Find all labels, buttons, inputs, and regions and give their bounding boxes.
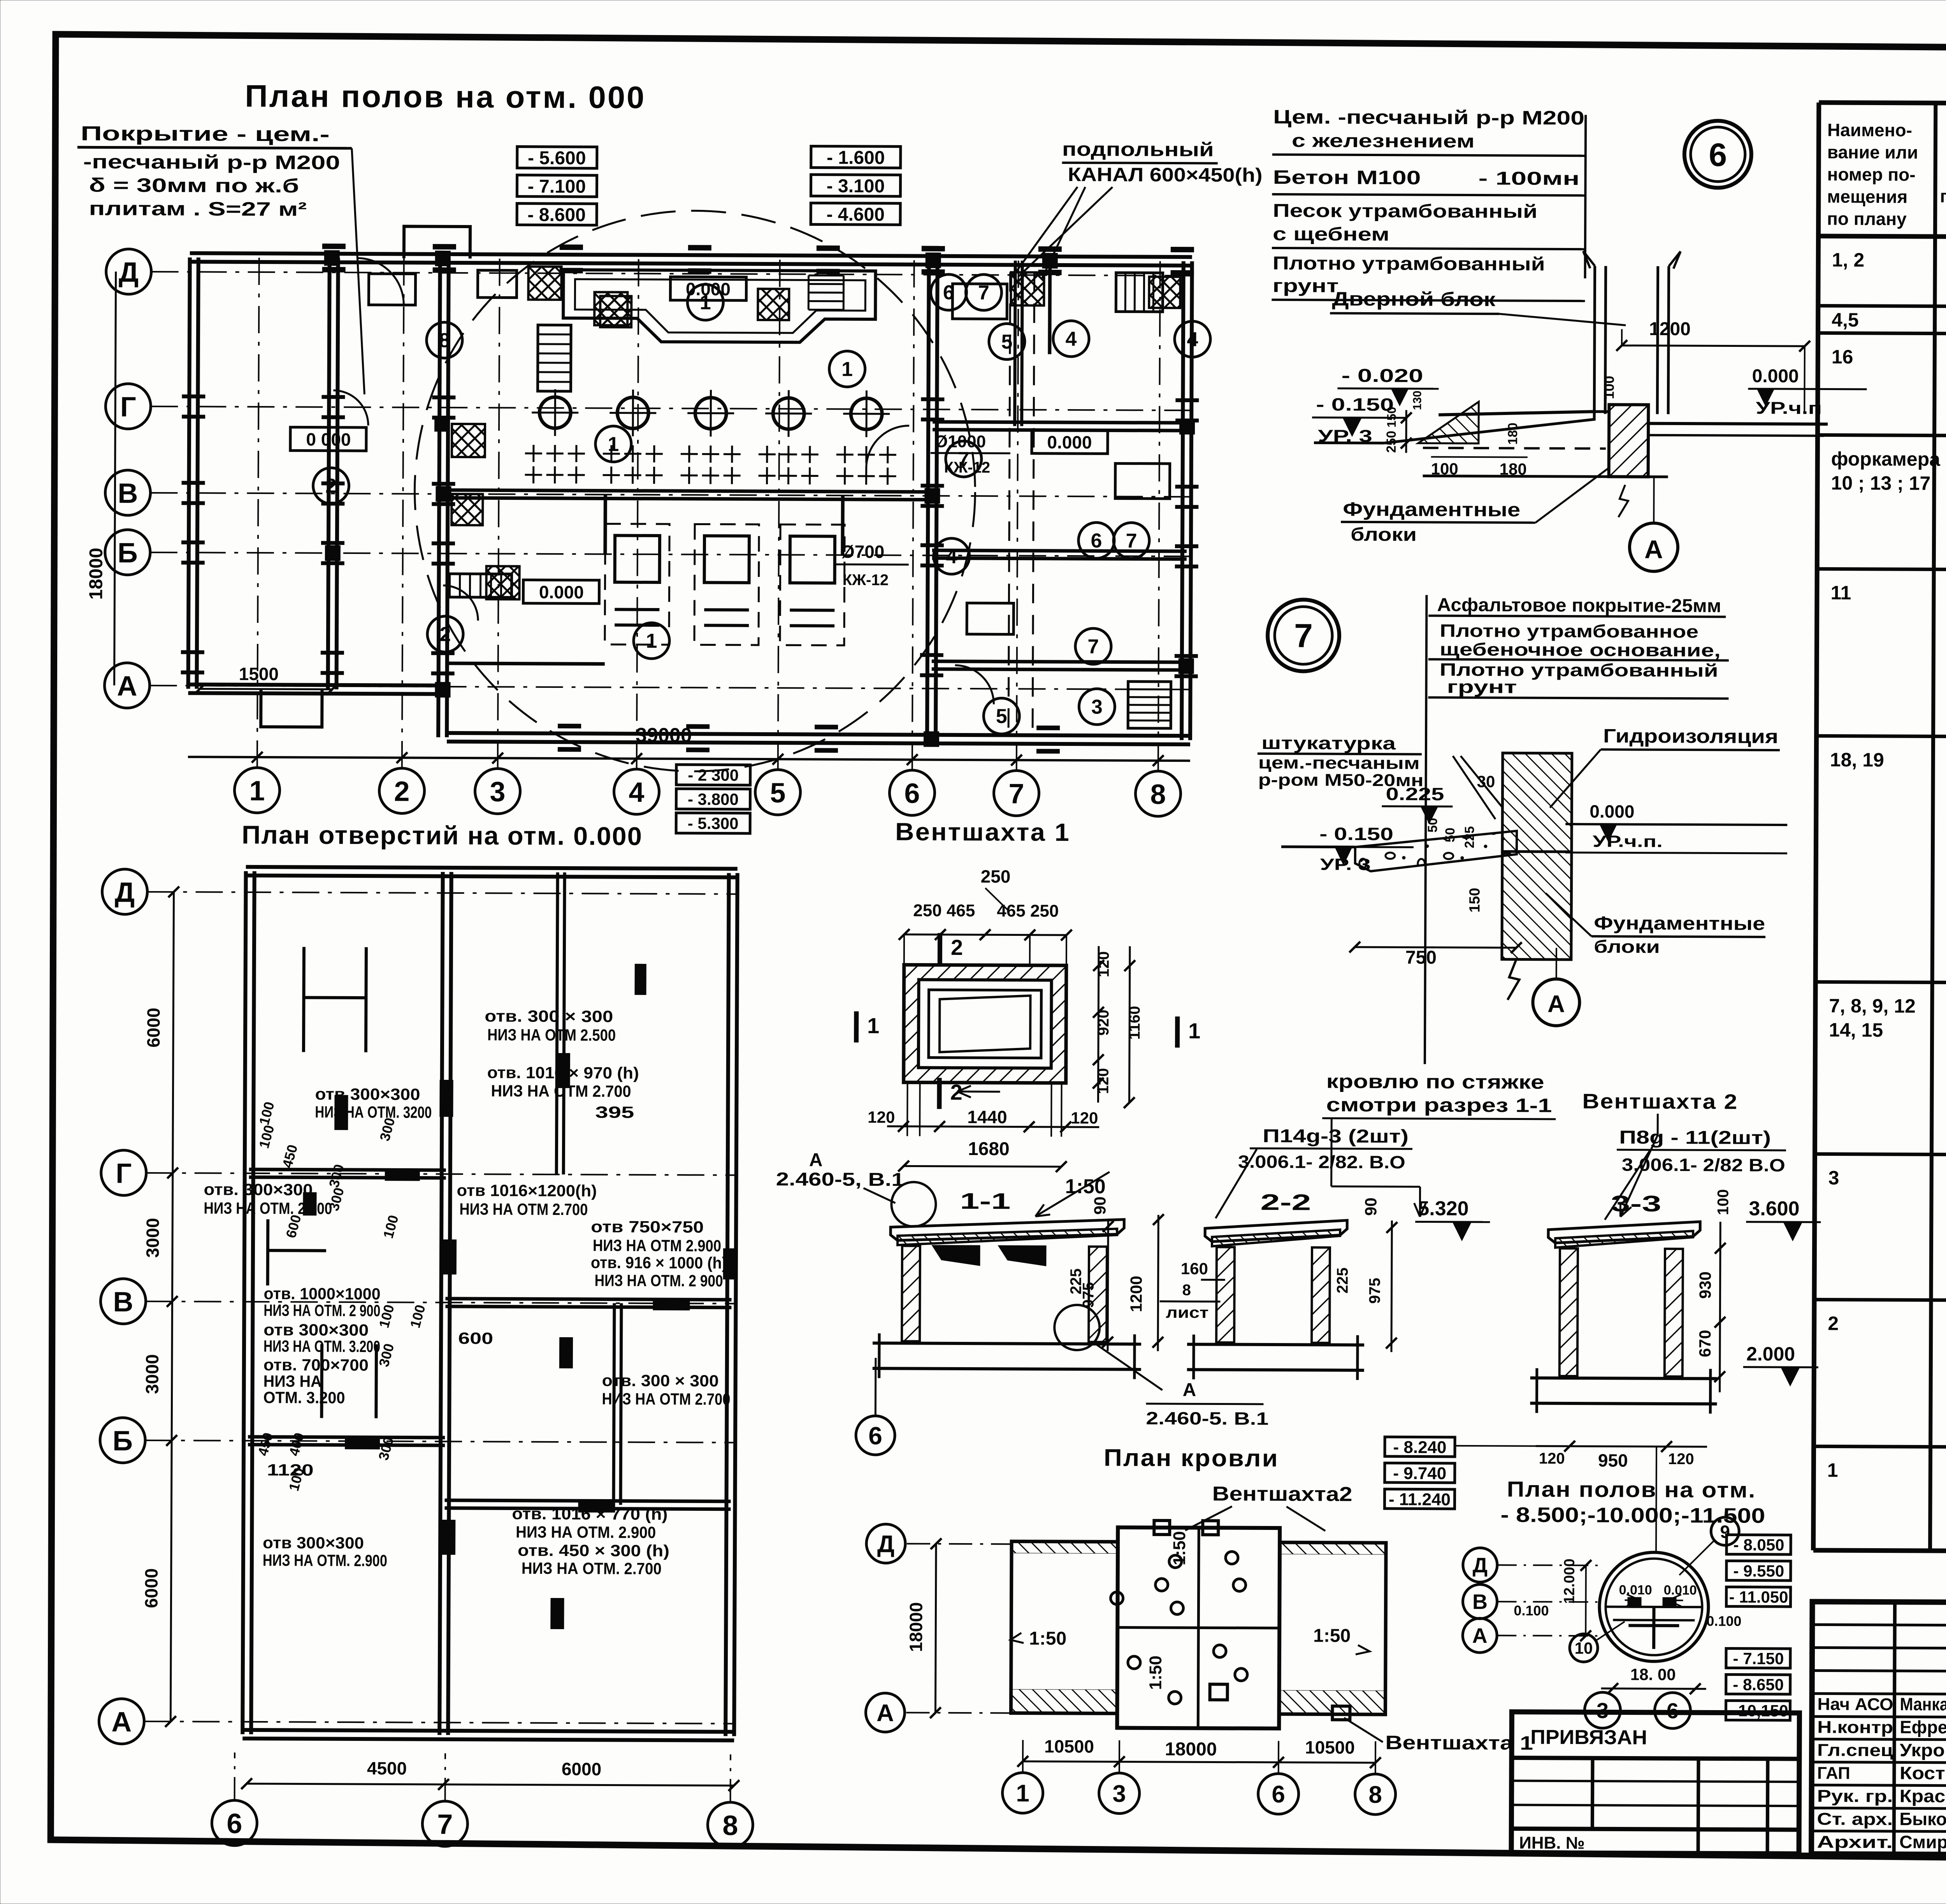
svg-text:11: 11 [1830,582,1851,604]
svg-text:250 465: 250 465 [913,901,975,920]
svg-text:18000: 18000 [86,548,107,600]
svg-text:250: 250 [981,866,1011,886]
svg-text:7: 7 [1126,530,1137,552]
svg-text:грунт: грунт [1272,276,1338,297]
svg-text:1440: 1440 [967,1107,1007,1127]
svg-text:2.460-5, В.1: 2.460-5, В.1 [776,1169,905,1190]
svg-text:δ = 30мм по ж.б: δ = 30мм по ж.б [89,174,299,197]
svg-text:НИЗ НА ОТМ. 2 900: НИЗ НА ОТМ. 2 900 [595,1271,723,1290]
svg-text:- 100мн: - 100мн [1478,168,1579,189]
svg-text:НИЗ НА ОТМ 2.700: НИЗ НА ОТМ 2.700 [491,1081,631,1100]
svg-text:- 8.050: - 8.050 [1733,1536,1784,1554]
svg-text:отв. 300×300: отв. 300×300 [204,1180,313,1199]
svg-text:- 3.800: - 3.800 [688,790,739,809]
svg-text:А: А [1183,1380,1196,1400]
svg-text:1:50: 1:50 [1029,1628,1066,1649]
svg-text:2-2: 2-2 [1260,1190,1311,1215]
svg-text:Ст. арх.: Ст. арх. [1817,1809,1893,1829]
svg-text:цем.-песчаным: цем.-песчаным [1258,753,1420,773]
svg-text:НИЗ НА ОТМ 2.700: НИЗ НА ОТМ 2.700 [602,1389,730,1408]
svg-text:950: 950 [1598,1450,1628,1470]
svg-text:9: 9 [1720,1521,1730,1542]
svg-text:3.600: 3.600 [1749,1197,1799,1220]
svg-text:плитам . S=27 м²: плитам . S=27 м² [89,197,307,220]
svg-text:1: 1 [608,433,619,455]
svg-text:3: 3 [1112,1780,1126,1807]
svg-text:1: 1 [1016,1780,1029,1807]
svg-text:КАНАЛ 600×450(h): КАНАЛ 600×450(h) [1068,164,1263,186]
svg-text:5.320: 5.320 [1418,1197,1468,1220]
svg-text:План полов на отм. 000: План полов на отм. 000 [245,79,646,115]
svg-text:А: А [876,1700,894,1726]
svg-text:1: 1 [1188,1018,1200,1043]
svg-text:КЖ-12: КЖ-12 [843,571,889,589]
svg-text:Плотно утрамбованный: Плотно утрамбованный [1273,253,1545,275]
svg-text:- 0.150: - 0.150 [1316,394,1394,415]
svg-text:0 000: 0 000 [306,429,351,449]
svg-text:1:50: 1:50 [1170,1531,1189,1565]
svg-text:4: 4 [1065,328,1077,350]
svg-text:- 0.020: - 0.020 [1342,366,1423,387]
svg-text:Д: Д [119,257,139,288]
svg-text:5: 5 [770,777,785,809]
svg-text:18. 00: 18. 00 [1630,1665,1676,1684]
svg-text:А: А [111,1707,132,1738]
svg-text:7: 7 [1294,617,1313,654]
svg-text:10 ; 13 ; 17: 10 ; 13 ; 17 [1831,472,1930,494]
svg-text:ОТМ. 3.200: ОТМ. 3.200 [263,1388,345,1407]
svg-text:225: 225 [1334,1268,1351,1294]
svg-text:1200: 1200 [1649,319,1691,339]
svg-text:В: В [1472,1590,1488,1614]
svg-text:отв. 300 × 300: отв. 300 × 300 [485,1007,613,1025]
svg-text:План кровли: План кровли [1104,1444,1279,1472]
svg-text:А: А [1472,1624,1488,1647]
svg-text:1: 1 [867,1013,879,1038]
svg-text:отв. 1016 × 970 (h): отв. 1016 × 970 (h) [487,1063,639,1082]
svg-text:лист: лист [1166,1304,1208,1321]
svg-text:1, 2: 1, 2 [1832,249,1865,271]
svg-text:5: 5 [996,705,1007,728]
svg-text:750: 750 [1405,947,1437,968]
svg-text:Смирнова: Смирнова [1899,1832,1946,1852]
svg-text:Наимено-: Наимено- [1827,120,1912,140]
svg-text:НИЗ НА ОТМ. 2 900: НИЗ НА ОТМ. 2 900 [263,1301,380,1320]
svg-text:ИНВ. №: ИНВ. № [1519,1833,1585,1853]
svg-text:- 1.600: - 1.600 [827,148,885,169]
svg-text:В: В [113,1287,133,1318]
svg-text:- 4.600: - 4.600 [826,204,885,225]
svg-text:0.225: 0.225 [1386,784,1444,804]
svg-text:130: 130 [1411,390,1424,410]
svg-text:0.000: 0.000 [1752,366,1799,387]
svg-text:12.000: 12.000 [1561,1559,1578,1604]
svg-text:Вентшахта2: Вентшахта2 [1212,1482,1352,1505]
svg-text:Д: Д [115,877,135,908]
svg-text:отв 300×300: отв 300×300 [263,1320,369,1339]
svg-text:План отверстий на отм. 0.000: План отверстий на отм. 0.000 [242,820,643,851]
svg-text:8: 8 [1150,779,1166,810]
svg-text:отв. 916 × 1000 (h): отв. 916 × 1000 (h) [591,1253,727,1272]
svg-text:отв. 450 × 300 (h): отв. 450 × 300 (h) [518,1541,669,1560]
svg-text:3000: 3000 [142,1218,163,1258]
svg-text:Ø1000: Ø1000 [934,432,986,452]
svg-text:Б: Б [112,1426,133,1457]
svg-text:НИЗ НА: НИЗ НА [263,1372,322,1391]
svg-text:номер по-: номер по- [1827,164,1916,185]
svg-text:4: 4 [629,777,644,808]
svg-text:подпольный: подпольный [1062,138,1214,160]
svg-text:120: 120 [1539,1450,1565,1467]
svg-text:отв. 700×700: отв. 700×700 [263,1355,369,1374]
svg-text:2.000: 2.000 [1746,1343,1795,1365]
svg-text:30: 30 [1477,772,1495,791]
svg-text:2.460-5. В.1: 2.460-5. В.1 [1146,1408,1268,1429]
svg-text:90: 90 [1361,1197,1380,1216]
svg-text:Фундаментные: Фундаментные [1594,913,1765,934]
svg-text:0.000: 0.000 [539,582,584,602]
svg-text:Ø700: Ø700 [841,541,885,562]
svg-text:7: 7 [437,1809,453,1840]
svg-text:по плану: по плану [1827,208,1907,229]
svg-text:Г: Г [120,392,136,423]
svg-text:НИЗ НА ОТМ. 3.200: НИЗ НА ОТМ. 3.200 [263,1337,380,1355]
svg-text:10: 10 [1575,1639,1593,1657]
svg-text:- 5.300: - 5.300 [688,814,739,833]
svg-text:100: 100 [1431,460,1458,478]
svg-text:Д: Д [877,1531,894,1558]
svg-text:НИЗ НА ОТМ 2.500: НИЗ НА ОТМ 2.500 [487,1025,616,1044]
svg-text:120: 120 [1071,1109,1098,1127]
svg-text:1680: 1680 [968,1139,1010,1159]
svg-text:100: 100 [1714,1189,1732,1215]
svg-text:вание или: вание или [1827,142,1918,162]
svg-text:975: 975 [1366,1278,1383,1304]
svg-text:-песчаный р-р М200: -песчаный р-р М200 [83,151,340,174]
svg-text:1: 1 [1827,1459,1838,1481]
svg-text:- 3.100: - 3.100 [827,176,885,197]
svg-text:КЖ-12: КЖ-12 [944,459,991,476]
svg-text:Плотно утрамбованное: Плотно утрамбованное [1440,621,1698,642]
svg-text:3: 3 [1091,696,1103,718]
svg-text:Д: Д [1473,1554,1488,1577]
svg-text:120: 120 [1668,1450,1694,1468]
svg-text:УР.ч.п.: УР.ч.п. [1593,832,1663,851]
svg-text:кровлю по стяжке: кровлю по стяжке [1326,1071,1544,1093]
svg-text:А: А [117,671,137,702]
svg-text:180: 180 [1505,423,1520,445]
svg-text:А: А [809,1150,823,1170]
svg-text:Цем. -песчаный р-р М200: Цем. -песчаный р-р М200 [1273,106,1584,129]
svg-text:0.100: 0.100 [1706,1613,1741,1629]
svg-text:6: 6 [868,1422,882,1450]
svg-text:отв 300×300: отв 300×300 [315,1085,420,1104]
svg-text:10500: 10500 [1044,1736,1094,1756]
svg-text:отв 1016×1200(h): отв 1016×1200(h) [457,1181,597,1200]
svg-text:Укропова: Укропова [1900,1740,1946,1760]
svg-text:Дверной блок: Дверной блок [1332,288,1496,311]
svg-text:1160: 1160 [1126,1006,1143,1040]
svg-text:План полов на отм.: План полов на отм. [1507,1477,1756,1502]
svg-text:Песок утрамбованный: Песок утрамбованный [1273,200,1537,222]
svg-text:- 11.240: - 11.240 [1389,1490,1451,1509]
svg-text:6: 6 [1272,1781,1285,1808]
svg-text:ГАП: ГАП [1817,1763,1850,1783]
svg-text:2: 2 [951,935,963,960]
svg-text:120: 120 [868,1108,895,1126]
svg-text:18000: 18000 [1165,1739,1217,1760]
svg-text:отв. 1016 × 770 (h): отв. 1016 × 770 (h) [512,1505,667,1524]
svg-text:форкамера: форкамера [1831,448,1941,470]
svg-text:8: 8 [722,1810,738,1841]
svg-text:НИЗ НА ОТМ. 2.900: НИЗ НА ОТМ. 2.900 [263,1551,387,1570]
svg-text:18000: 18000 [906,1602,926,1652]
svg-text:465 250: 465 250 [997,901,1059,921]
svg-text:Краснов: Краснов [1900,1786,1946,1806]
svg-text:Манкаускас: Манкаускас [1900,1694,1946,1714]
svg-text:6: 6 [227,1808,242,1839]
svg-text:НИЗ НА ОТМ. 3200: НИЗ НА ОТМ. 3200 [315,1103,432,1122]
svg-text:920: 920 [1095,1010,1112,1036]
svg-text:А: А [1644,535,1663,564]
svg-text:6: 6 [1709,136,1727,173]
svg-text:щебеночное основание,: щебеночное основание, [1440,639,1721,661]
svg-text:Гидроизоляция: Гидроизоляция [1603,725,1778,747]
svg-text:отв. 300 × 300: отв. 300 × 300 [602,1371,719,1390]
svg-text:4: 4 [946,545,957,568]
svg-text:1: 1 [841,358,853,381]
svg-text:3: 3 [1596,1698,1609,1723]
svg-text:8: 8 [1368,1781,1382,1808]
svg-text:Костин: Костин [1900,1763,1946,1783]
svg-text:проек-: проек- [1940,186,1946,207]
svg-text:100: 100 [1601,376,1617,399]
svg-text:6000: 6000 [141,1568,161,1609]
svg-text:250: 250 [1384,431,1399,453]
svg-text:3.006.1- 2/82. В.О: 3.006.1- 2/82. В.О [1238,1152,1405,1173]
svg-text:НИЗ НА ОТМ 2.700: НИЗ НА ОТМ 2.700 [459,1200,588,1218]
svg-text:180: 180 [1500,460,1527,478]
svg-text:Г: Г [116,1158,132,1189]
svg-text:14, 15: 14, 15 [1829,1019,1883,1041]
svg-text:1:50: 1:50 [1146,1656,1165,1690]
svg-text:Нач АСО: Нач АСО [1817,1695,1893,1714]
svg-text:- 8.650: - 8.650 [1733,1675,1784,1694]
svg-text:Вентшахта 1: Вентшахта 1 [1385,1732,1533,1754]
svg-text:Рук. гр.: Рук. гр. [1817,1786,1893,1806]
svg-text:- 2 300: - 2 300 [688,766,739,784]
svg-text:Ефремова: Ефремова [1900,1717,1946,1737]
svg-text:мещения: мещения [1827,186,1907,207]
svg-text:с железнением: с железнением [1292,130,1475,152]
svg-text:8: 8 [1182,1282,1191,1299]
svg-text:120: 120 [1095,951,1112,977]
svg-text:18, 19: 18, 19 [1830,749,1884,771]
svg-text:грунт: грунт [1447,677,1517,697]
svg-text:блоки: блоки [1594,936,1660,957]
svg-text:НИЗ НА ОТМ. 2.500: НИЗ НА ОТМ. 2.500 [204,1199,332,1217]
svg-text:- 8.600: - 8.600 [527,205,586,226]
svg-text:0.000: 0.000 [1047,432,1092,452]
svg-text:6: 6 [1091,529,1102,552]
svg-text:600: 600 [458,1329,493,1347]
svg-text:16: 16 [1832,346,1853,368]
svg-text:0.100: 0.100 [1514,1602,1549,1618]
svg-text:отв 750×750: отв 750×750 [591,1217,704,1236]
svg-text:2: 2 [394,776,409,807]
svg-text:- 10,150: - 10,150 [1728,1702,1788,1720]
svg-text:975: 975 [1080,1282,1097,1308]
svg-text:3000: 3000 [142,1354,162,1394]
svg-text:670: 670 [1696,1330,1714,1357]
svg-text:930: 930 [1696,1271,1714,1299]
svg-text:Быков: Быков [1899,1809,1946,1829]
svg-text:- 9.550: - 9.550 [1733,1562,1784,1581]
svg-text:Гл.спец: Гл.спец [1817,1740,1893,1760]
svg-text:смотри разрез 1-1: смотри разрез 1-1 [1326,1094,1552,1116]
svg-text:150: 150 [1467,888,1483,913]
svg-text:4,5: 4,5 [1832,309,1859,331]
svg-text:Вентшахта 1: Вентшахта 1 [895,818,1070,846]
svg-text:2: 2 [325,475,337,498]
svg-text:штукатурка: штукатурка [1261,733,1396,753]
svg-text:1-1: 1-1 [960,1188,1010,1214]
svg-text:395: 395 [595,1103,634,1121]
svg-text:0.000: 0.000 [1589,801,1634,821]
svg-text:Б: Б [118,538,138,569]
svg-text:В: В [118,478,138,509]
svg-text:2: 2 [440,623,451,646]
svg-text:ПРИВЯЗАН: ПРИВЯЗАН [1530,1726,1647,1749]
svg-text:с щебнем: с щебнем [1273,224,1389,245]
svg-text:4500: 4500 [367,1758,407,1778]
svg-text:НИЗ НА ОТМ. 2.700: НИЗ НА ОТМ. 2.700 [522,1559,662,1578]
svg-text:6000: 6000 [143,1008,163,1048]
svg-text:отв. 1000×1000: отв. 1000×1000 [263,1284,380,1303]
svg-text:- 5.600: - 5.600 [528,148,586,169]
svg-text:- 8.240: - 8.240 [1393,1438,1446,1457]
svg-text:П14g-3 (2шт): П14g-3 (2шт) [1263,1126,1409,1147]
svg-text:блоки: блоки [1351,524,1417,545]
svg-text:4: 4 [1187,328,1198,351]
svg-text:1: 1 [646,630,657,652]
svg-text:- 0.150: - 0.150 [1319,823,1393,844]
svg-text:2: 2 [1828,1313,1839,1334]
svg-text:225: 225 [1462,826,1477,848]
svg-text:90: 90 [1091,1197,1109,1215]
svg-text:1200: 1200 [1127,1276,1145,1312]
svg-text:6: 6 [904,778,920,809]
svg-text:Вентшахта 2: Вентшахта 2 [1582,1090,1738,1114]
svg-text:6: 6 [1667,1698,1679,1723]
svg-text:3-3: 3-3 [1611,1191,1661,1216]
svg-text:П8g - 11(2шт): П8g - 11(2шт) [1619,1127,1771,1148]
svg-text:160: 160 [1181,1259,1208,1278]
svg-text:- 7.150: - 7.150 [1733,1649,1784,1668]
svg-text:Покрытие - цем.-: Покрытие - цем.- [81,122,330,146]
svg-text:1:50: 1:50 [1313,1625,1351,1646]
svg-text:10500: 10500 [1305,1737,1355,1757]
svg-text:Фундаментные: Фундаментные [1343,498,1520,521]
svg-text:3: 3 [490,776,505,807]
svg-text:Бетон М100: Бетон М100 [1273,166,1421,188]
svg-text:0.010: 0.010 [1619,1582,1652,1597]
svg-text:1: 1 [249,775,265,807]
svg-text:6000: 6000 [562,1759,602,1779]
svg-text:Н.контр: Н.контр [1817,1718,1893,1737]
svg-text:Архит.: Архит. [1817,1832,1893,1852]
svg-text:- 7.100: - 7.100 [528,176,586,197]
svg-text:120: 120 [1095,1068,1112,1094]
svg-text:8: 8 [439,329,450,352]
svg-text:50: 50 [1443,828,1458,842]
svg-text:7: 7 [1087,635,1099,658]
svg-text:1: 1 [700,291,711,314]
svg-text:7: 7 [1008,778,1024,809]
svg-text:отв 300×300: отв 300×300 [263,1533,364,1552]
svg-text:НИЗ НА ОТМ 2.900: НИЗ НА ОТМ 2.900 [593,1236,721,1255]
svg-text:- 9.740: - 9.740 [1393,1464,1446,1483]
svg-text:А: А [1547,991,1565,1018]
svg-text:- 11.050: - 11.050 [1729,1588,1788,1607]
svg-text:1500: 1500 [239,664,279,684]
svg-text:7, 8, 9, 12: 7, 8, 9, 12 [1829,995,1916,1017]
svg-text:Асфальтовое покрытие-25мм: Асфальтовое покрытие-25мм [1437,595,1721,617]
svg-text:НИЗ НА ОТМ. 2.900: НИЗ НА ОТМ. 2.900 [516,1523,656,1542]
svg-text:150: 150 [1384,407,1398,428]
svg-text:50: 50 [1425,818,1440,833]
svg-text:3: 3 [1828,1167,1839,1189]
